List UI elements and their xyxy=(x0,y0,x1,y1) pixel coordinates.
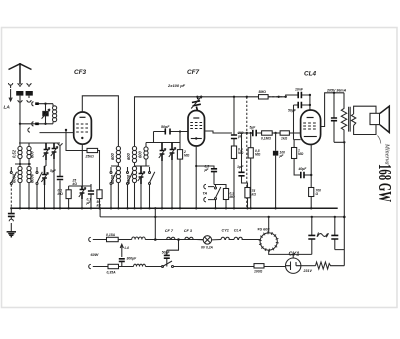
wire CY1 to dropper xyxy=(301,265,316,267)
choke upper xyxy=(132,237,146,240)
resistor 100ohm xyxy=(254,264,264,268)
junction CY1 top xyxy=(292,253,294,255)
svg-text:0,52: 0,52 xyxy=(12,149,17,158)
svg-text:5MΩ: 5MΩ xyxy=(259,90,267,94)
svg-text:0,15A: 0,15A xyxy=(106,233,116,237)
wire pointer curve xyxy=(378,136,381,144)
hook band A xyxy=(18,100,22,104)
svg-text:25kΩ: 25kΩ xyxy=(85,155,95,159)
wire CF3 cathode xyxy=(66,130,100,190)
heater return bus xyxy=(100,142,344,217)
wire 50k to bus xyxy=(82,184,100,208)
coil IF1 primary 600 xyxy=(116,144,120,166)
fuse 0,35A xyxy=(108,264,119,268)
capacitor 300uF xyxy=(119,259,125,267)
svg-text:600: 600 xyxy=(110,152,115,160)
svg-text:kΩ: kΩ xyxy=(73,182,78,186)
svg-text:10nF: 10nF xyxy=(295,88,304,92)
rectifier CY1 xyxy=(286,258,301,273)
antenna xyxy=(9,63,32,84)
svg-text:L4: L4 xyxy=(125,246,129,250)
junction 0,5M B xyxy=(250,132,252,134)
svg-text:231V: 231V xyxy=(303,269,313,273)
junction rail 234 xyxy=(233,96,235,98)
svg-text:50µF: 50µF xyxy=(162,251,171,255)
resistor 0,1M left xyxy=(66,190,71,199)
svg-text:MΩ: MΩ xyxy=(238,151,244,155)
junction B+ xyxy=(333,92,335,94)
capacitor output rail xyxy=(331,118,337,121)
contact hook screen xyxy=(58,143,62,147)
resistor cathode CF3 xyxy=(87,148,98,152)
svg-text:100Ω: 100Ω xyxy=(254,270,263,274)
trimmer capacitor T6 xyxy=(159,143,166,209)
wire chain segment xyxy=(238,132,262,134)
wire smoothing join xyxy=(293,253,312,255)
capacitor 0,5uF xyxy=(211,169,217,185)
svg-text:kΩ: kΩ xyxy=(97,204,102,208)
heater CL4 xyxy=(234,237,260,239)
svg-text:LA: LA xyxy=(4,105,11,111)
svg-text:CL4: CL4 xyxy=(234,229,242,233)
svg-text:600: 600 xyxy=(138,150,143,158)
wire anode rail CF7 xyxy=(135,97,287,144)
junction CF3 cathode dot xyxy=(81,137,83,139)
wire screen drop 234 xyxy=(233,97,235,209)
svg-text:600: 600 xyxy=(30,150,35,158)
heater CY1 xyxy=(221,237,234,239)
wire mid tie xyxy=(111,165,150,167)
svg-text:CL4: CL4 xyxy=(304,71,317,78)
coil 6000 B xyxy=(27,166,31,208)
tube CF3 xyxy=(74,112,92,144)
junction return bus right xyxy=(343,216,346,219)
capacitor 100uF electrolytic xyxy=(273,151,278,156)
switch S5 xyxy=(149,167,155,208)
wire mid tie left xyxy=(15,164,46,166)
wire rail after 5M dashed xyxy=(268,96,286,98)
junction rail CF7 xyxy=(196,96,198,98)
resistor 700ohm xyxy=(309,188,314,197)
capacitor 5uF xyxy=(57,177,63,180)
svg-text:MΩ: MΩ xyxy=(184,154,190,158)
svg-text:168 GW: 168 GW xyxy=(375,164,395,202)
wire screen vertical xyxy=(59,145,61,208)
ballast KS608 xyxy=(259,231,279,251)
svg-text:kΩ: kΩ xyxy=(252,193,257,197)
resistor 2M xyxy=(177,150,182,160)
coil 600 left xyxy=(27,146,31,166)
hook TA upper xyxy=(204,184,214,188)
wire CL4 grid top xyxy=(309,95,311,110)
svg-text:205V 36mA: 205V 36mA xyxy=(326,89,347,93)
ground symbol xyxy=(7,232,16,238)
hook band B xyxy=(27,100,31,102)
antenna connector hooks xyxy=(9,83,32,88)
wire 1M xyxy=(294,140,301,175)
wire det top tie xyxy=(146,132,180,143)
trimmer capacitor T2 xyxy=(51,143,58,208)
svg-text:5µF: 5µF xyxy=(50,169,57,173)
wire cathode branch xyxy=(196,166,214,168)
transformer secondary loop xyxy=(354,106,376,134)
wire chassis drop xyxy=(154,208,156,239)
wire CL4 cathode xyxy=(310,145,312,209)
junction CF7 cathode bar xyxy=(195,137,197,139)
zigzag secondary xyxy=(351,114,355,126)
svg-text:CY1: CY1 xyxy=(222,229,229,233)
resistor 5M xyxy=(259,95,269,99)
switch TA xyxy=(215,185,221,209)
resistor field zigzag xyxy=(341,93,346,143)
wire TA top tie xyxy=(214,185,226,189)
coil 6000 A xyxy=(18,166,22,208)
resistor 1M xyxy=(292,148,297,159)
junction CL4 grid xyxy=(309,94,311,96)
coil IF2 secondary 6000 xyxy=(132,166,136,208)
svg-text:CF3: CF3 xyxy=(74,69,87,76)
wire dropper up xyxy=(335,217,345,266)
coil antenna L xyxy=(53,106,57,122)
thermal squiggle xyxy=(317,233,329,238)
wire chain mid xyxy=(272,132,280,134)
wire 0,1M xyxy=(69,186,82,208)
wire 0,5M B xyxy=(250,133,252,208)
svg-text:600: 600 xyxy=(126,152,131,160)
switch S2 xyxy=(36,167,42,208)
LA arrow xyxy=(9,89,12,101)
trimmer capacitor T5 xyxy=(138,166,145,208)
junction dots bus xyxy=(10,207,312,209)
svg-text:2x100 pF: 2x100 pF xyxy=(167,83,186,88)
svg-text:50pF: 50pF xyxy=(161,125,170,129)
antenna tuned circuit loop wires xyxy=(20,104,53,124)
capacitor 10nF xyxy=(286,92,310,98)
junction dots return bus xyxy=(154,216,336,218)
capacitor smoothing B xyxy=(331,217,338,250)
junction rail dots xyxy=(278,96,280,98)
wire CL4 anode xyxy=(321,93,344,127)
svg-text:MΩ: MΩ xyxy=(58,192,64,196)
capacitor smoothing A xyxy=(308,217,315,255)
wire CF3 anode top xyxy=(82,96,118,144)
resistor 0,5M B xyxy=(248,148,253,158)
svg-text:CF 3: CF 3 xyxy=(184,229,193,233)
tube CF7 xyxy=(188,111,205,147)
junction grid xyxy=(65,129,67,131)
junction cathode xyxy=(195,165,197,167)
capacitor antenna coupling blocks xyxy=(16,91,23,96)
svg-text:MΩ: MΩ xyxy=(298,152,304,156)
capacitor antenna series blocks xyxy=(35,104,39,124)
svg-text:5µF: 5µF xyxy=(250,126,257,130)
svg-text:0,1MΩ: 0,1MΩ xyxy=(261,137,271,141)
coil det 600 xyxy=(144,143,148,167)
trimmer capacitor T7 xyxy=(169,143,176,209)
resistor 1k chain xyxy=(280,131,289,135)
capacitor 200pF xyxy=(231,135,237,139)
hook node B xyxy=(32,122,38,126)
coil IF1 secondary 6000 xyxy=(116,166,120,208)
junction 50uF xyxy=(177,238,180,241)
heater CF3 xyxy=(185,237,193,239)
wire 0,2M to bus xyxy=(225,200,227,209)
svg-text:Minerva: Minerva xyxy=(383,143,389,165)
wire 75k to bus xyxy=(247,198,249,209)
trimmer capacitor antenna xyxy=(42,104,50,124)
wire AVC dashed xyxy=(246,97,248,209)
switch S3 xyxy=(110,167,116,208)
heater CF7 xyxy=(167,237,175,239)
coil 0,52 xyxy=(18,146,22,166)
svg-text:1kΩ: 1kΩ xyxy=(281,137,288,141)
svg-text:TA: TA xyxy=(203,192,208,196)
switch mains xyxy=(162,261,174,268)
trimmer capacitor T4 xyxy=(79,186,86,208)
capacitor 0,1uF xyxy=(88,186,94,208)
trimmer capacitor 2x100pF xyxy=(191,96,202,111)
switch S4 xyxy=(127,167,133,208)
resistor 0,2M xyxy=(223,189,228,200)
trimmer capacitor T1 xyxy=(43,143,50,166)
mains pin upper xyxy=(89,237,107,241)
resistor dropper zigzag xyxy=(316,262,345,269)
hook ground xyxy=(9,219,13,231)
capacitor ground xyxy=(8,208,15,219)
mains pin lower xyxy=(89,264,108,268)
svg-text:60W: 60W xyxy=(91,253,99,257)
wire KS bottom to CY1 xyxy=(269,250,294,258)
svg-text:Ω: Ω xyxy=(315,192,319,196)
junction chain xyxy=(274,132,276,134)
wire coil cluster top tie xyxy=(19,124,60,146)
svg-text:CF 7: CF 7 xyxy=(165,229,174,233)
fuse 0,15A xyxy=(107,237,119,241)
wire 100uF drop xyxy=(275,133,277,208)
svg-text:MΩ: MΩ xyxy=(255,153,261,157)
svg-text:6000: 6000 xyxy=(30,173,35,183)
wire KS top xyxy=(268,217,270,233)
hook TA lower xyxy=(204,197,216,201)
wire mains upper xyxy=(118,239,203,241)
svg-text:0,35A: 0,35A xyxy=(107,271,117,275)
resistor 75k xyxy=(245,188,250,198)
wire S1 dashed to bus xyxy=(10,185,12,209)
capacitor 1pF xyxy=(238,133,247,188)
hook node A xyxy=(32,102,38,106)
wire chain to CL4 xyxy=(289,132,300,134)
speaker driver xyxy=(370,113,380,124)
wire 2M to bus xyxy=(179,143,181,209)
wire CF7 cathode xyxy=(195,146,197,208)
junction chassis drop xyxy=(154,238,157,241)
svg-text:6V 0,2A: 6V 0,2A xyxy=(201,245,214,249)
hook CF3 grid xyxy=(28,128,30,132)
ground bus main xyxy=(11,207,338,209)
junction cathode CL4 xyxy=(310,174,312,176)
trimmer capacitor T3 xyxy=(41,166,48,208)
wire CF3 grid left xyxy=(40,132,74,134)
choke lower xyxy=(134,264,146,266)
wire CF7 anode right xyxy=(205,131,233,133)
tube CL4 xyxy=(301,110,321,145)
svg-text:1pF: 1pF xyxy=(237,165,244,169)
resistor 50k xyxy=(97,190,102,199)
svg-text:40µF: 40µF xyxy=(298,167,308,171)
wire B+ rail right xyxy=(334,93,344,143)
resistor 0,5M A xyxy=(231,146,236,159)
junction antenna node xyxy=(19,123,21,125)
arrow L4 xyxy=(120,244,123,257)
wire antenna down xyxy=(20,96,29,124)
switch S1 xyxy=(10,167,16,185)
resistor 0,1M chain xyxy=(262,131,273,135)
svg-text:50µF: 50µF xyxy=(288,109,297,113)
capacitor 50uF grid xyxy=(294,102,310,140)
lamp dial xyxy=(197,236,222,244)
transformer core xyxy=(349,107,351,132)
coil IF2 primary 600 xyxy=(132,144,136,166)
junction 2M grid xyxy=(179,130,181,132)
capacitor 50uF psu xyxy=(164,240,179,267)
junction AVC xyxy=(246,96,248,98)
capacitor 5uF chain xyxy=(253,130,256,136)
wire mains lower xyxy=(119,266,286,268)
svg-text:CF7: CF7 xyxy=(187,69,200,76)
speaker horn xyxy=(380,106,389,132)
svg-text:300µF: 300µF xyxy=(127,257,138,261)
capacitor 40uF xyxy=(301,172,311,178)
capacitor 50pF xyxy=(154,129,189,135)
